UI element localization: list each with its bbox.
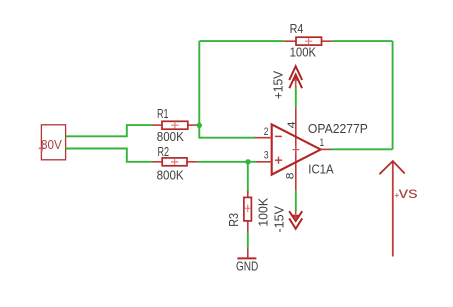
supply +15V — [270, 66, 302, 99]
op-amp IC1A power pins 4/8 — [295, 107, 297, 190]
inverting input dash — [275, 135, 282, 137]
supply -15V — [271, 206, 302, 233]
resistor R2 — [152, 144, 197, 183]
svg-text:GND: GND — [236, 258, 258, 273]
ground GND — [236, 248, 258, 273]
wire output to right vertical — [331, 148, 393, 150]
svg-text:4: 4 — [286, 121, 298, 128]
wire top right segment from R4 — [332, 40, 393, 42]
resistor R3 — [226, 191, 271, 232]
origin cross — [293, 146, 300, 153]
wire box bottom to R2 — [66, 149, 153, 162]
svg-text:2: 2 — [264, 126, 269, 138]
resistor R1 — [152, 106, 199, 144]
svg-text:80V: 80V — [41, 138, 62, 152]
svg-text:IC1A: IC1A — [308, 162, 334, 177]
wire junction down to R3 — [247, 162, 249, 193]
svg-text:R2: R2 — [158, 144, 170, 159]
wire top left segment to R4 — [199, 40, 284, 42]
pin 1 stub output — [321, 148, 332, 150]
svg-text:100K: 100K — [255, 197, 270, 226]
svg-text:R1: R1 — [157, 106, 169, 121]
wire right vertical up to R4 — [392, 41, 394, 149]
svg-text:100K: 100K — [290, 45, 317, 60]
svg-text:vs: vs — [399, 185, 418, 202]
wire R3 to GND — [247, 232, 249, 249]
wire box top to R1 — [66, 125, 153, 136]
op-amp IC1A triangle — [272, 124, 321, 174]
svg-text:8: 8 — [285, 173, 297, 180]
wire R2 to pin 3 — [198, 161, 257, 163]
node junction R1 right / feedback — [197, 123, 202, 128]
pin 2 stub — [255, 137, 272, 139]
non-inverting input plus — [275, 157, 282, 164]
pin 3 stub — [256, 161, 272, 163]
svg-text:R3: R3 — [226, 213, 241, 227]
wire pin8 to -15V — [295, 191, 297, 211]
svg-text:800K: 800K — [157, 129, 184, 144]
svg-text:R4: R4 — [290, 21, 304, 36]
svg-text:1: 1 — [320, 137, 325, 149]
svg-text:3: 3 — [264, 149, 269, 161]
resistor R4 — [284, 21, 331, 60]
svg-text:OPA2277P: OPA2277P — [308, 121, 368, 136]
node junction R2/R3 — [245, 159, 250, 164]
wire pin4 to +15V — [295, 87, 297, 108]
wire feedback vertical and step to pin 2 — [199, 41, 255, 138]
vs arrow — [379, 161, 404, 257]
svg-text:+15V: +15V — [270, 71, 285, 100]
voltage source 80V — [39, 125, 66, 160]
node label vs — [394, 185, 417, 202]
svg-text:800K: 800K — [157, 167, 184, 182]
svg-text:-15V: -15V — [271, 206, 286, 233]
